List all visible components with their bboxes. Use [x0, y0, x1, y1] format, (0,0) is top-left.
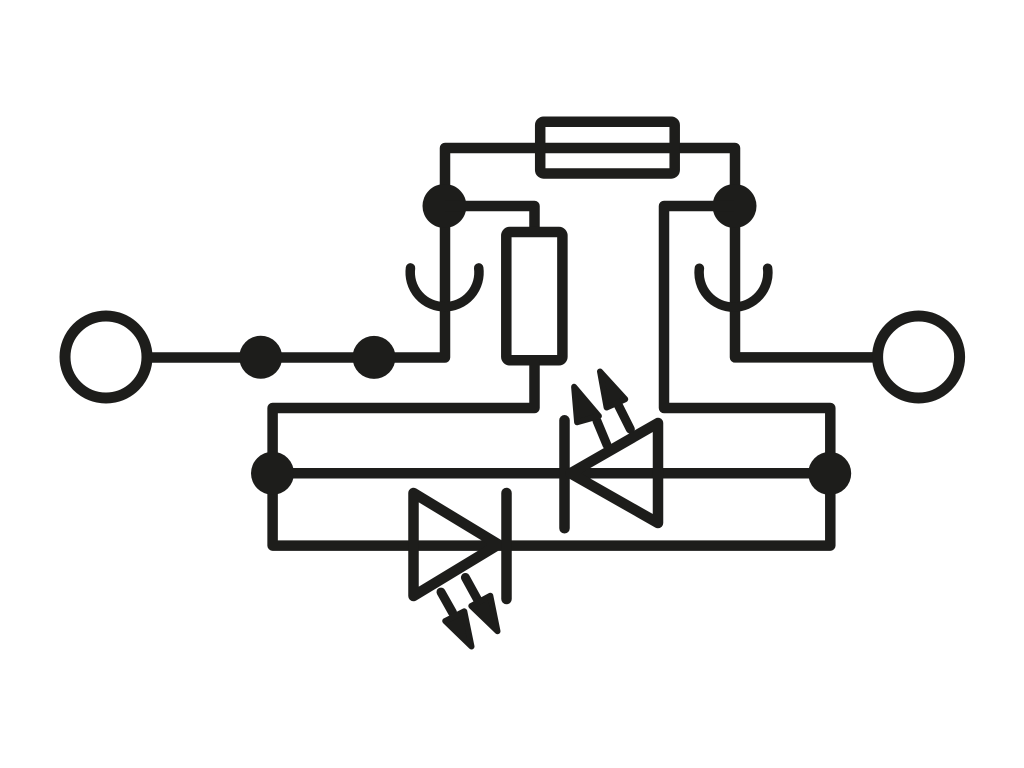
wire main rail through fuse branch — [150, 148, 875, 358]
LED D1 arrow a — [574, 387, 607, 445]
wire middle LED rail — [273, 468, 830, 479]
LED D2 arrow b — [465, 578, 497, 632]
test point arc left — [410, 268, 479, 307]
LED D2 cathode bar — [501, 493, 512, 599]
junction dot top-right — [713, 184, 757, 228]
junction dot middle-right — [808, 452, 851, 495]
wire dot to resistor — [445, 206, 535, 232]
LED D2 triangle — [414, 493, 499, 596]
LED D1 triangle — [571, 423, 659, 523]
LED D1 arrow b — [600, 372, 630, 430]
LED D2 arrow a — [441, 592, 472, 646]
junction dot middle-left — [251, 452, 294, 495]
wire resistor to loop and right branch — [273, 206, 831, 546]
fuse F1 — [540, 122, 675, 174]
LED D1 cathode bar — [559, 420, 570, 528]
test point arc right — [699, 268, 768, 307]
junction dot 2 — [353, 336, 396, 379]
junction dot 1 — [239, 336, 282, 379]
junction dot top-left — [423, 184, 467, 228]
resistor R1 — [506, 232, 562, 360]
terminal circle left — [65, 316, 147, 398]
terminal circle right — [878, 316, 960, 398]
